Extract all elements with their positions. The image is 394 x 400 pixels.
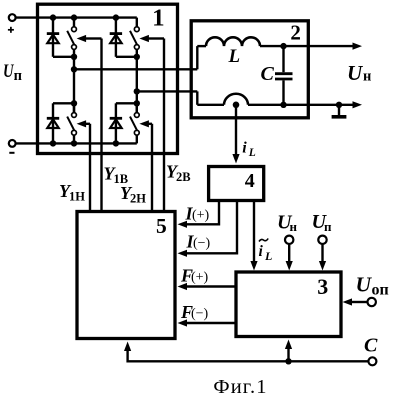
label iL — [242, 140, 256, 160]
svg-text:(+): (+) — [191, 270, 209, 285]
node S1 emitter — [71, 54, 77, 60]
node top rail VD1 — [50, 14, 56, 20]
label Un (supply voltage) — [3, 62, 22, 84]
svg-text:L: L — [228, 46, 241, 67]
svg-text:L: L — [248, 147, 256, 159]
wire Y2H vertical — [151, 124, 153, 212]
node top rail S1 — [71, 14, 77, 20]
capacitor C — [275, 46, 293, 105]
label I(+) — [185, 204, 210, 224]
svg-text:2: 2 — [290, 21, 301, 45]
wire filter left lower — [196, 91, 198, 104]
label Uн input — [277, 212, 298, 235]
svg-text:5: 5 — [156, 214, 167, 238]
svg-text:2В: 2В — [176, 170, 191, 184]
node ground tap — [336, 102, 342, 108]
wire Uп into block 3 — [319, 244, 326, 271]
svg-text:C: C — [364, 335, 378, 357]
wire top rail — [16, 16, 137, 18]
control arrow Y1B into S1 — [77, 35, 102, 42]
converter block 1 — [38, 4, 178, 153]
diode VD4 — [110, 103, 137, 143]
diode VD3 — [47, 103, 74, 143]
switch S1 (upper left) — [67, 18, 76, 57]
wire iL sense — [232, 105, 239, 164]
control arrow Y2H into S4 — [139, 120, 152, 127]
svg-text:i: i — [259, 243, 264, 260]
wire filter left upper — [196, 46, 198, 69]
wire top output — [284, 43, 363, 50]
node right leg output — [134, 88, 140, 94]
terminal Uоп — [368, 298, 376, 306]
label 2 — [290, 21, 301, 45]
wire upper bridge output — [74, 68, 197, 70]
svg-text:4: 4 — [245, 170, 255, 192]
label Y2B — [166, 162, 191, 185]
label L — [228, 46, 241, 67]
wire Y2B vertical — [163, 39, 165, 212]
label F(-) — [180, 302, 209, 322]
label Y1B — [104, 164, 129, 187]
label C (clock) — [364, 335, 378, 357]
label C — [261, 63, 275, 85]
node bottom rail VD4 — [113, 140, 119, 146]
label iL* (measured current) — [259, 239, 273, 264]
svg-text:н: н — [363, 69, 371, 85]
node top rail VD2 — [113, 14, 119, 20]
node left leg output — [71, 66, 77, 72]
wire iL* to block 3 — [250, 201, 257, 271]
wire bottom output — [284, 101, 363, 108]
terminal Uп input — [318, 236, 326, 244]
node S2 emitter — [134, 54, 140, 60]
label 4 — [245, 170, 255, 192]
node capacitor bottom — [280, 102, 286, 108]
svg-text:п: п — [14, 68, 22, 84]
terminal C (clock) — [368, 357, 376, 365]
wire left leg middle — [73, 57, 75, 113]
sensor block 4 — [209, 167, 264, 201]
svg-text:1: 1 — [152, 5, 165, 31]
node right leg lower junction — [134, 100, 140, 106]
diode VD2 — [110, 18, 137, 57]
label 3 — [317, 274, 328, 299]
switch S3 (lower left) — [67, 103, 76, 143]
inductor L — [197, 37, 283, 46]
svg-text:(−): (−) — [193, 236, 211, 251]
control arrow Y2B into S2 — [139, 35, 164, 42]
wire right leg middle — [136, 57, 138, 113]
control block 5 — [77, 212, 175, 339]
negative input terminal — [9, 140, 16, 153]
svg-text:U: U — [356, 273, 373, 297]
terminal Uн input — [285, 236, 293, 244]
label Uоп — [356, 273, 389, 299]
label Uн (output voltage) — [347, 61, 371, 85]
node clock branch — [285, 358, 291, 364]
wire F(-) — [178, 319, 237, 326]
switch S2 (upper right) — [130, 18, 139, 57]
svg-text:оп: оп — [372, 282, 389, 299]
node left leg lower junction — [71, 100, 77, 106]
wire Uн into block 3 — [286, 244, 293, 271]
svg-text:2Н: 2Н — [130, 192, 146, 206]
wire F(+) — [178, 283, 237, 290]
node bottom rail S3 — [71, 140, 77, 146]
label Uп input — [312, 211, 333, 234]
svg-text:L: L — [264, 249, 272, 263]
label Y2H — [120, 183, 146, 206]
control arrow Y1H into S3 — [77, 120, 90, 127]
current sensor tap — [233, 102, 240, 109]
switch S4 (lower right) — [130, 103, 139, 143]
svg-text:(+): (+) — [192, 208, 210, 223]
wire clock bus — [124, 342, 368, 362]
wire lower bridge output — [137, 90, 198, 92]
node bottom rail VD3 — [50, 140, 56, 146]
svg-text:Фиг.1: Фиг.1 — [213, 376, 267, 398]
filter block 2 — [191, 21, 308, 118]
wire Y1H vertical — [89, 124, 91, 212]
wire I(+) to block 5 — [178, 201, 220, 228]
svg-text:3: 3 — [317, 274, 328, 299]
label 1 — [152, 5, 165, 31]
svg-text:C: C — [261, 63, 275, 85]
svg-text:н: н — [290, 219, 298, 234]
label Y1H — [59, 181, 85, 204]
svg-text:i: i — [242, 140, 247, 157]
regulator block 3 — [236, 272, 341, 337]
label 5 — [156, 214, 167, 238]
svg-text:(−): (−) — [191, 307, 209, 322]
node inductor-capacitor — [280, 43, 286, 49]
wire clock to block 3 — [285, 340, 292, 362]
svg-text:п: п — [324, 219, 332, 234]
caption Фиг.1 — [213, 376, 267, 398]
wire Y1B vertical — [100, 39, 102, 212]
svg-text:U: U — [347, 61, 364, 85]
wire I(-) to block 5 — [178, 201, 238, 257]
diode VD1 — [47, 18, 74, 57]
svg-text:1Н: 1Н — [69, 190, 85, 204]
label I(-) — [186, 232, 211, 252]
label F(+) — [180, 266, 209, 286]
wire Uоп into block 3 — [343, 298, 368, 305]
positive input terminal — [8, 14, 16, 33]
wire bottom rail — [16, 142, 137, 144]
ground — [332, 105, 347, 117]
wire filter bottom — [197, 94, 283, 105]
